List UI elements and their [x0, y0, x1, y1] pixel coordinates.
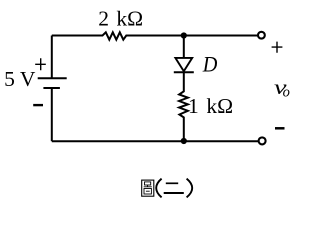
svg-text:5 V: 5 V [4, 67, 36, 91]
svg-text:D: D [202, 52, 217, 77]
svg-text:o: o [283, 84, 290, 100]
svg-text:2 kΩ: 2 kΩ [98, 6, 143, 30]
svg-text:1 kΩ: 1 kΩ [188, 94, 233, 118]
